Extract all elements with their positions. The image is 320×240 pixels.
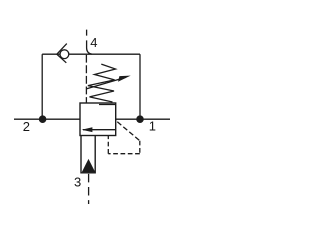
pilot line port 4 hook into wire bbox=[87, 45, 92, 55]
wire left vertical bbox=[41, 54, 43, 119]
lower channel rect bbox=[81, 136, 95, 173]
wire port 2 horizontal bbox=[14, 118, 80, 120]
spring adjustment arrow shaft bbox=[86, 77, 126, 89]
drain pilot dashed bottom horizontal bbox=[108, 153, 140, 155]
check valve V1 ball bbox=[60, 50, 69, 59]
junction dot port 1 bbox=[136, 115, 144, 123]
wire right vertical bbox=[139, 54, 141, 119]
junction dot port 2 bbox=[39, 115, 47, 123]
valve flow arrow shaft bbox=[83, 129, 116, 131]
port 3 dashed line bbox=[88, 174, 90, 204]
valve body box bbox=[80, 103, 116, 136]
svg-text:2: 2 bbox=[23, 119, 30, 134]
svg-text:1: 1 bbox=[149, 119, 156, 134]
spring adjustment arrowhead bbox=[118, 76, 131, 82]
wire port 1 horizontal bbox=[116, 118, 170, 120]
poppet triangle bbox=[82, 159, 96, 173]
pilot line port 4 dashed bbox=[86, 30, 88, 45]
check valve V1 seat bbox=[57, 44, 67, 63]
svg-text:3: 3 bbox=[74, 174, 81, 189]
drain pilot dashed diagonal bbox=[117, 122, 140, 141]
drain pilot dashed right vertical bbox=[139, 141, 141, 154]
spring bbox=[88, 64, 116, 102]
valve flow arrowhead bbox=[82, 127, 93, 132]
drain pilot dashed left vertical bbox=[107, 136, 109, 154]
wire top horizontal bbox=[42, 53, 140, 55]
spring cap line bbox=[99, 104, 116, 106]
pilot line vertical dashed to valve top bbox=[85, 55, 87, 103]
svg-text:4: 4 bbox=[90, 35, 97, 50]
